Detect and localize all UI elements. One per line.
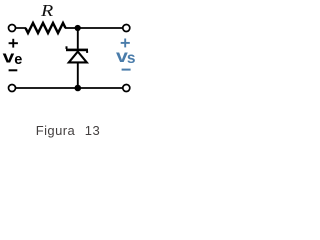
plus sign input [9, 39, 18, 48]
zener tick left [66, 46, 68, 49]
node junction top [75, 25, 81, 31]
svg-text:s: s [127, 50, 136, 67]
minus sign output [122, 69, 131, 71]
label ve [3, 48, 23, 68]
terminal top-left [9, 25, 16, 32]
wire top-right segment [65, 27, 123, 29]
wire top-left segment [15, 27, 26, 29]
svg-text:R: R [40, 1, 54, 20]
plus sign output [121, 39, 130, 48]
label vs [116, 47, 136, 67]
caption Figura 13 [36, 123, 100, 138]
minus sign input [9, 69, 18, 71]
terminal bottom-right [123, 85, 130, 92]
resistor R [26, 23, 66, 33]
diode D triangle [69, 52, 87, 63]
svg-text:v: v [3, 48, 15, 66]
zener tick right [86, 51, 88, 53]
terminal bottom-left [9, 85, 16, 92]
node junction bottom [75, 85, 82, 92]
terminal top-right [123, 25, 130, 32]
svg-text:e: e [14, 52, 22, 68]
diode D (zener) cathode bar [66, 49, 88, 52]
wire bottom rail [15, 87, 122, 89]
wire diode branch upper [77, 28, 79, 49]
wire diode branch lower [77, 63, 79, 89]
